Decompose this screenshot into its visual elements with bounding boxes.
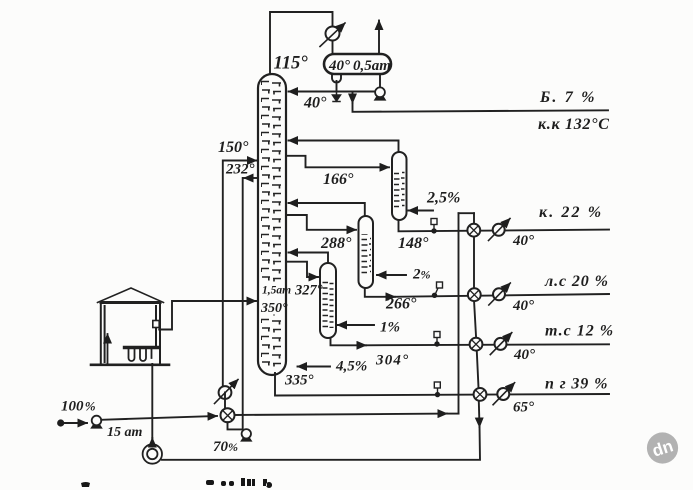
- valve product line 2: [432, 282, 443, 298]
- bus bridge: [459, 212, 475, 214]
- svg-text:166°: 166°: [323, 171, 354, 188]
- heat exchanger product line 1: [467, 224, 480, 237]
- wire stripper1 bottoms to product line 1: [399, 220, 610, 231]
- transfer line outlet box on wall: [153, 321, 159, 328]
- burner arrow inside furnace: [107, 334, 109, 363]
- arrow 2,5% into stripper1 bottom: [409, 210, 434, 212]
- wire stripper2 bottoms to product line 2: [365, 288, 395, 297]
- valve product line 4: [434, 382, 440, 397]
- wire feed start with arrow: [64, 422, 87, 424]
- furnace right wall: [156, 303, 160, 366]
- reflux drum E-1 (40° 0,5 ат): [324, 54, 391, 74]
- wire overhead vapor: column top to condenser: [270, 12, 333, 76]
- svg-text:288°: 288°: [320, 235, 352, 252]
- wire reflux line into column 40°: [289, 91, 376, 93]
- vent line with up arrow from drum: [378, 21, 380, 54]
- svg-text:304°: 304°: [375, 353, 409, 369]
- furnace left wall: [101, 303, 105, 366]
- furnace floor: [91, 363, 169, 366]
- pump P-1 (reflux/distillate): [374, 87, 387, 100]
- wire feed line to exchanger: [101, 416, 217, 420]
- cooler product line 1: [489, 219, 511, 241]
- valve product line 3: [434, 332, 440, 347]
- svg-text:к.к 132°С: к.к 132°С: [538, 116, 610, 133]
- cooler product line 4: [493, 383, 514, 405]
- heat exchanger product line 2: [468, 288, 481, 301]
- svg-text:266°: 266°: [385, 296, 417, 313]
- bus down arrow and drop to bottoms pump line: [478, 401, 481, 427]
- furnace coil (serpentine): [125, 346, 158, 349]
- arrow 4,5% into column bottom: [298, 366, 331, 368]
- svg-text:150°: 150°: [218, 139, 249, 156]
- wire column bottoms to product line 4: [275, 373, 609, 396]
- watermark dn: [647, 432, 678, 463]
- svg-text:70%: 70%: [213, 439, 238, 455]
- condenser (air cooler) circle with diagonal arrow: [320, 23, 345, 47]
- svg-text:327°: 327°: [294, 283, 323, 299]
- svg-text:1%: 1%: [380, 320, 400, 336]
- svg-text:40° 0,5ат: 40° 0,5ат: [328, 58, 391, 74]
- svg-text:350°: 350°: [260, 301, 288, 316]
- wire column draw to stripper3: [286, 262, 318, 277]
- pumparound cooler (circle with diagonal arrow): [215, 380, 239, 404]
- furnace ceiling: [101, 301, 160, 304]
- svg-text:15 ат: 15 ат: [107, 425, 143, 440]
- svg-text:65°: 65°: [513, 400, 534, 416]
- valve product line 1: [431, 219, 437, 234]
- wire pumparound draw from column 232°: [244, 177, 258, 179]
- feed inlet node (tank): [57, 419, 64, 426]
- svg-text:2,5%: 2,5%: [426, 190, 460, 207]
- furnace roof: [98, 288, 164, 303]
- svg-text:100 %: 100 %: [61, 399, 96, 415]
- svg-text:115°: 115°: [274, 54, 309, 74]
- pump P-feed (raw feed pump): [90, 416, 103, 429]
- svg-text:л.с 20 %: л.с 20 %: [544, 273, 609, 290]
- drum bottom left nozzle: [332, 74, 341, 91]
- cooler product line 3: [490, 333, 512, 355]
- svg-text:335°: 335°: [284, 373, 314, 389]
- wire stripper1 vapor return to column: [289, 141, 399, 153]
- wire feed line exchanger to bus riser: [235, 414, 448, 415]
- furnace F-1: [91, 288, 169, 365]
- svg-text:1,5ат: 1,5ат: [262, 285, 291, 297]
- wire stripper3 vapor return to column: [289, 253, 329, 264]
- wire column draw to stripper1 166°: [286, 156, 389, 168]
- svg-text:4,5%: 4,5%: [335, 359, 367, 375]
- svg-text:п г 39 %: п г 39 %: [545, 376, 608, 393]
- wire stripper2 vapor return to column: [289, 203, 365, 216]
- heat exchanger product line 4: [474, 388, 487, 401]
- pumparound/feed heat exchanger (circle with X): [221, 393, 243, 430]
- svg-text:2%: 2%: [412, 267, 431, 283]
- bus left riser: [458, 213, 460, 413]
- svg-text:148°: 148°: [398, 235, 429, 252]
- svg-text:т.с 12 %: т.с 12 %: [545, 323, 614, 340]
- svg-text:232°: 232°: [225, 162, 255, 178]
- stripper S-1: [392, 152, 407, 220]
- wire column draw to stripper2 288°: [286, 215, 356, 230]
- wire stripper3 bottoms to product line 3: [331, 338, 367, 345]
- cooler product line 2: [489, 283, 511, 305]
- bus right downcomer through exchangers: [474, 213, 479, 394]
- svg-text:Б. 7 %: Б. 7 %: [539, 89, 597, 106]
- drum bottom right nozzle to pump: [379, 74, 381, 88]
- wire pumparound return into column 150°: [223, 161, 257, 387]
- wire distillate branch down to product line: [352, 92, 354, 104]
- heat exchanger product line 3: [470, 338, 483, 351]
- stripper S-2: [359, 216, 374, 288]
- arrow 2% into stripper2 bottom: [377, 274, 406, 276]
- caption fragments clipped at bottom edge: [81, 478, 272, 488]
- svg-text:40°: 40°: [512, 233, 534, 249]
- pump P-2 (furnace charge, double circle): [143, 444, 162, 463]
- pump P-3 (pumparound 70%): [240, 429, 252, 442]
- arrow 1% into stripper3 bottom: [338, 324, 375, 326]
- svg-text:40°: 40°: [513, 347, 535, 363]
- wire condenser to reflux drum: [332, 41, 334, 56]
- wire riser pump to furnace coil with up arrow: [151, 438, 153, 444]
- svg-text:к. 22 %: к. 22 %: [539, 204, 603, 221]
- drain symbol under reflux junction: [333, 92, 341, 102]
- wire transfer line furnace to column 350°: [159, 301, 256, 330]
- main column K-1: [258, 74, 286, 375]
- svg-text:40°: 40°: [303, 95, 327, 112]
- stripper S-3: [320, 263, 336, 338]
- svg-text:40°: 40°: [512, 298, 534, 314]
